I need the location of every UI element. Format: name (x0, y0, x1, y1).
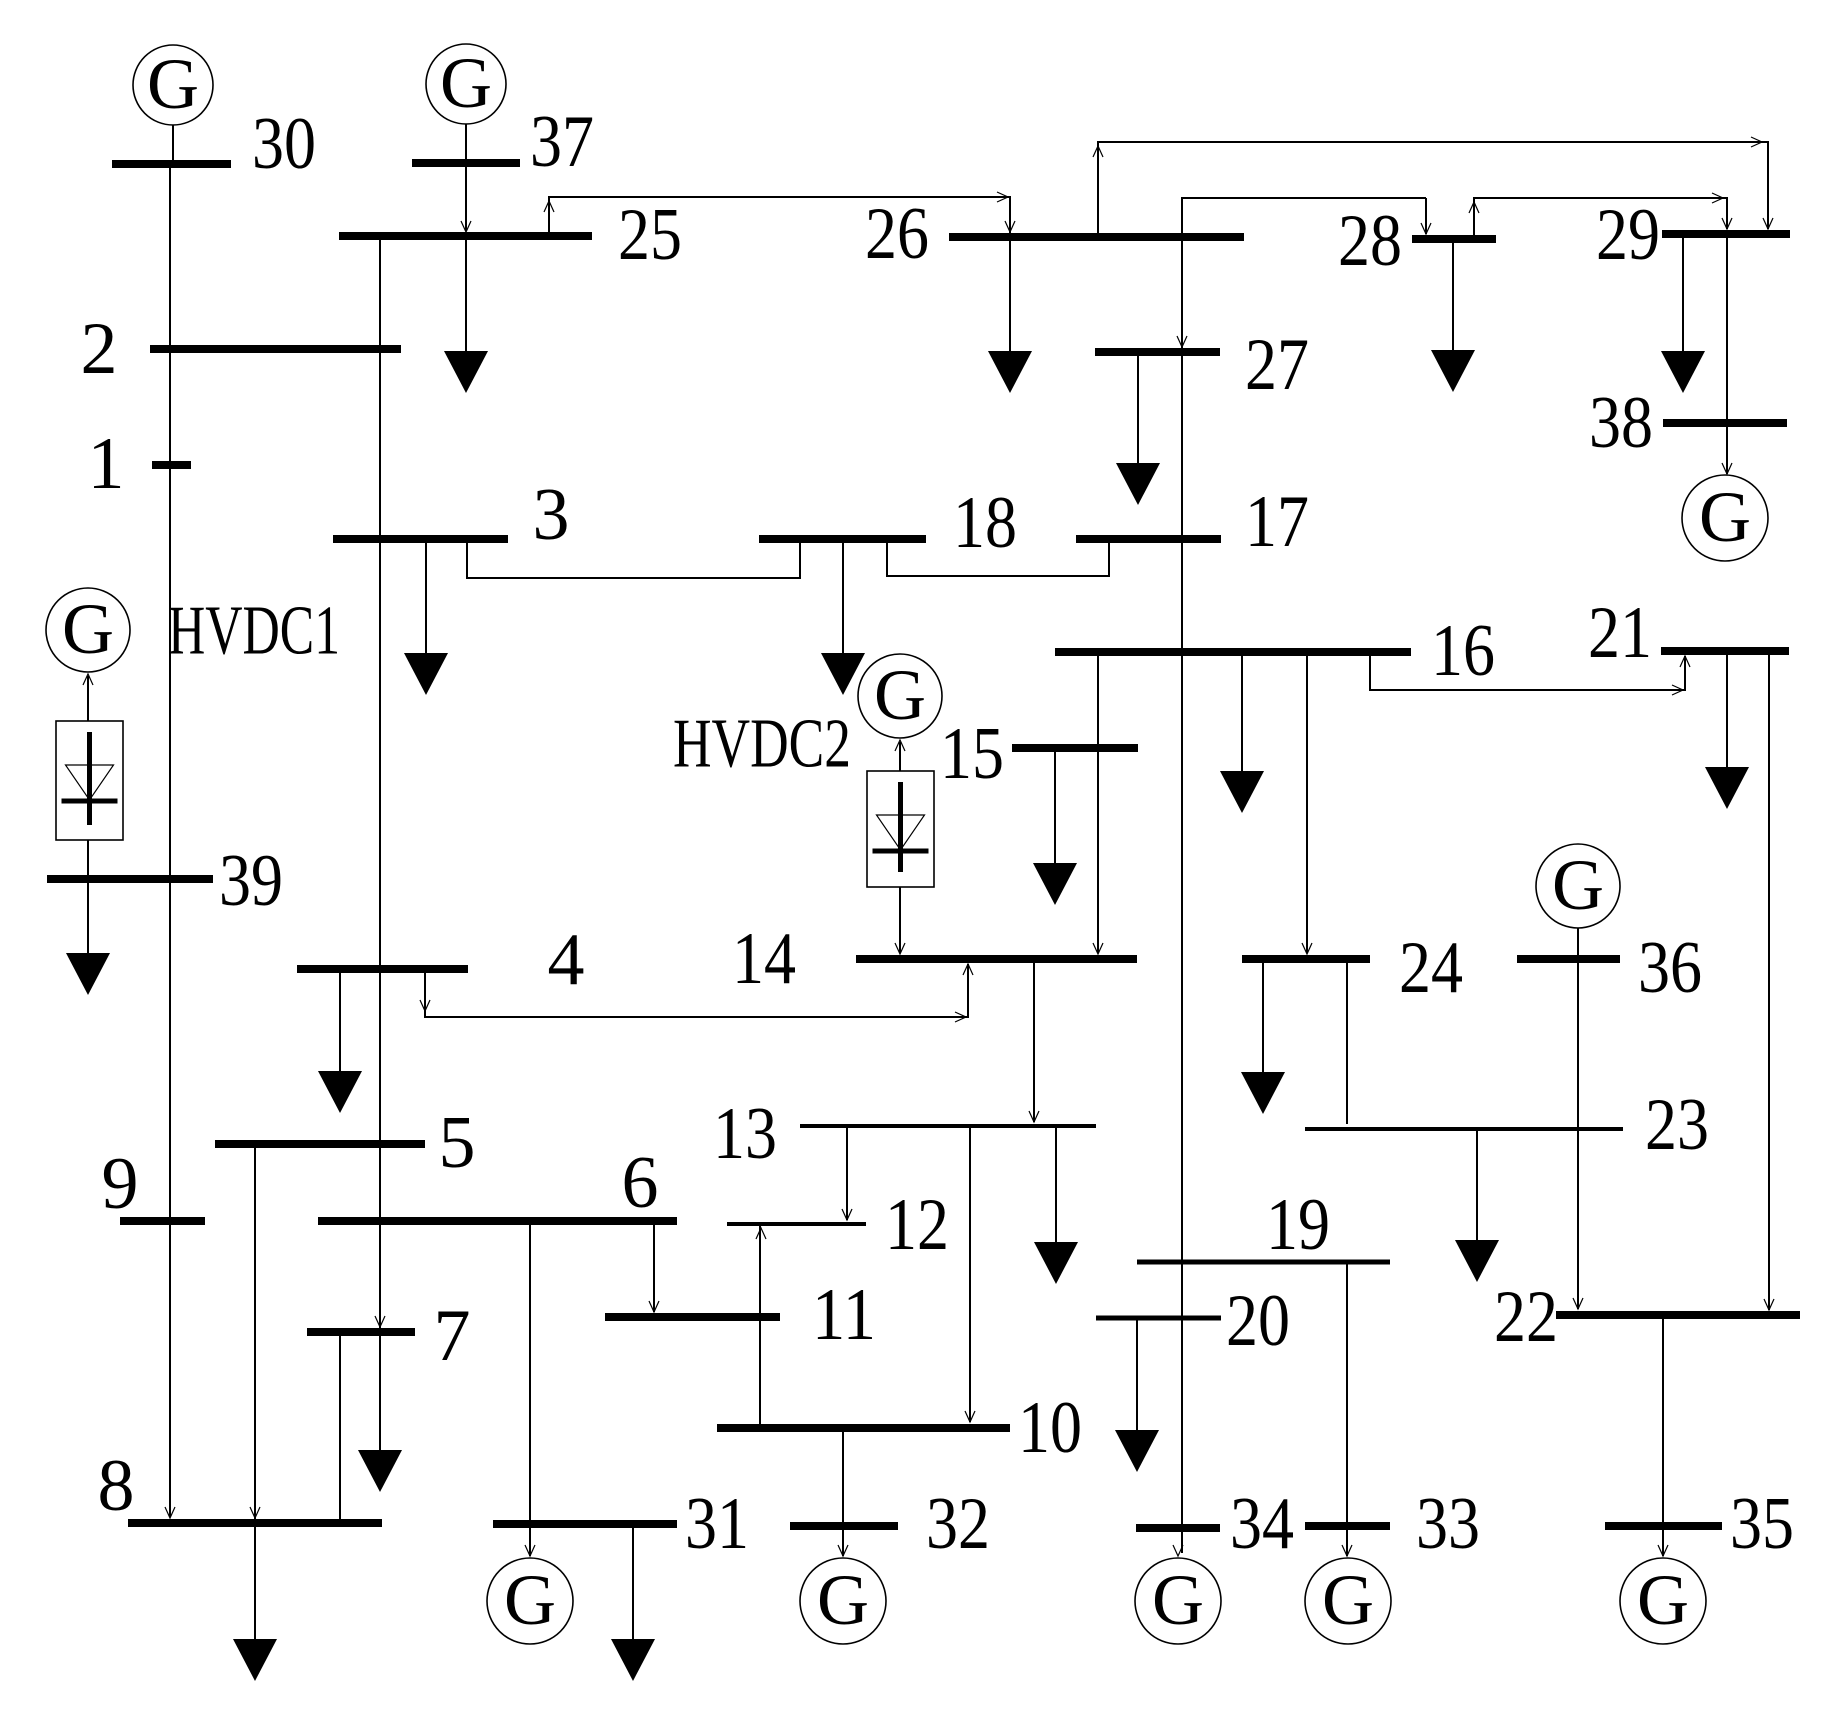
wire bus 39 load lead (87, 879, 89, 953)
svg-text:31: 31 (685, 1483, 749, 1565)
svg-text:G: G (62, 589, 114, 669)
wire 26-28 and long 26-17-20-34 feeder (1182, 198, 1426, 1553)
wire HVDC2 valve to bus 14 (899, 887, 901, 953)
svg-text:23: 23 (1645, 1084, 1709, 1166)
label bus 22 (1494, 1276, 1558, 1358)
svg-text:G: G (1552, 845, 1604, 925)
label HVDC2 (673, 706, 851, 783)
label bus 10 (1018, 1387, 1082, 1469)
wire 30-2-1-39-9-8 chain (169, 164, 171, 1517)
arrowhead 26-29 right (1751, 137, 1762, 147)
svg-text:19: 19 (1266, 1184, 1330, 1266)
wire HVDC2 valve to G14 gen (899, 742, 901, 771)
wire 25 load lead (465, 236, 467, 351)
label bus 20 (1226, 1280, 1290, 1362)
bus 34 (1136, 1524, 1220, 1532)
svg-text:G: G (440, 43, 492, 123)
arrowhead 25-26 corner up (544, 201, 554, 212)
arrowhead into bus 7 at x380 (375, 1316, 385, 1327)
load arrow on bus 25 (from 37) (444, 351, 488, 393)
label bus 35 (1730, 1483, 1794, 1565)
arrowhead into bus 29 at x1768 (1763, 218, 1773, 229)
load arrow on bus 8 (233, 1639, 277, 1681)
wire 13-12 link (846, 1126, 848, 1220)
svg-text:37: 37 (530, 101, 594, 183)
label bus 24 (1399, 927, 1463, 1009)
bus 32 (790, 1522, 898, 1530)
load arrow on bus 28 (1431, 350, 1475, 392)
generator G37 (426, 43, 506, 124)
generator G30 (133, 44, 213, 125)
svg-text:24: 24 (1399, 927, 1463, 1009)
wire 16-24 link (1306, 652, 1308, 953)
svg-text:G: G (147, 44, 199, 124)
wire HVDC1 valve to G39 gen (87, 676, 89, 721)
svg-text:18: 18 (953, 482, 1017, 564)
wire 18-17 link (887, 539, 1109, 576)
svg-text:1: 1 (88, 423, 125, 505)
wire 6-31-G31 lead (529, 1221, 531, 1556)
svg-text:26: 26 (865, 193, 929, 275)
arrowhead into bus 21 (1680, 656, 1690, 667)
label bus 16 (1431, 610, 1495, 692)
wire 21-22 link (1768, 651, 1770, 1310)
label bus 33 (1416, 1483, 1480, 1565)
bus 11 (605, 1313, 780, 1321)
svg-text:21: 21 (1588, 592, 1652, 674)
wire 16-21 link (1370, 652, 1685, 690)
bus 14 (856, 955, 1137, 963)
svg-text:G: G (1322, 1560, 1374, 1640)
label bus 19 (1266, 1184, 1330, 1266)
arrowhead 25-26 right (997, 192, 1008, 202)
wire 3-18 link (467, 539, 800, 578)
arrowhead into bus 14 at x900 (895, 943, 905, 954)
wire bus 13 load lead (1055, 1126, 1057, 1242)
label bus 36 (1638, 927, 1702, 1009)
arrowhead 16-21 right (1672, 685, 1683, 695)
svg-text:17: 17 (1245, 481, 1309, 563)
arrowhead into G33 circle (1342, 1545, 1352, 1556)
arrowhead into G38 circle (1722, 463, 1732, 474)
svg-text:33: 33 (1416, 1483, 1480, 1565)
label bus 6 (622, 1142, 659, 1224)
bus 30 (112, 160, 231, 168)
svg-text:15: 15 (940, 713, 1004, 795)
arrowhead into G31 circle (525, 1545, 535, 1556)
label bus 2 (81, 308, 118, 390)
bus 7 (307, 1328, 415, 1336)
bus 36 (1517, 955, 1620, 963)
generator G14 (HVDC2) (858, 654, 942, 738)
bus 38 (1663, 419, 1787, 427)
svg-text:G: G (1637, 1560, 1689, 1640)
generator G32 (800, 1558, 886, 1644)
arrowhead 26-29 corner up (1093, 146, 1103, 157)
svg-text:32: 32 (926, 1483, 990, 1565)
load arrow on bus 20 (1115, 1430, 1159, 1472)
generator G35 (1620, 1558, 1706, 1644)
svg-text:39: 39 (219, 840, 283, 922)
load arrow on bus 23 (1455, 1240, 1499, 1282)
label bus 29 (1596, 194, 1660, 276)
load arrow on bus 27 (1116, 463, 1160, 505)
arrowhead into bus 24 (1302, 943, 1312, 954)
bus 12 (727, 1222, 866, 1226)
svg-text:9: 9 (102, 1143, 139, 1225)
arrowhead into bus 12 (842, 1209, 852, 1220)
label bus 38 (1589, 382, 1653, 464)
bus 37 (412, 159, 520, 167)
arrowhead into bus 12 from 11 (756, 1228, 766, 1239)
svg-text:HVDC2: HVDC2 (673, 706, 851, 783)
bus 29 (1662, 230, 1790, 238)
arrowhead into bus 25 (461, 221, 471, 232)
arrowhead into bus 13 (1029, 1111, 1039, 1122)
wire bus 3 load lead (425, 539, 427, 653)
wire 5-8 and bus 8 load (254, 1144, 256, 1640)
arrowhead into bus 8 at x255 (250, 1507, 260, 1518)
svg-text:6: 6 (622, 1142, 659, 1224)
wire 28-29 link (1474, 198, 1727, 239)
bus 8 (128, 1519, 382, 1527)
bus 1 (152, 461, 191, 469)
wire G37 lead (465, 124, 467, 163)
bus 28 (1412, 235, 1496, 243)
svg-text:36: 36 (1638, 927, 1702, 1009)
arrowhead into bus 22 at x1578 (1573, 1298, 1583, 1309)
label bus 28 (1338, 200, 1402, 282)
label bus 11 (812, 1274, 876, 1356)
svg-text:30: 30 (252, 103, 316, 185)
label bus 9 (102, 1143, 139, 1225)
wire G30 lead (172, 125, 174, 164)
load arrow on bus 4 (318, 1071, 362, 1113)
svg-text:13: 13 (713, 1093, 777, 1175)
bus 4 (297, 965, 468, 973)
bus 17 (1076, 535, 1221, 543)
bus 21 (1661, 647, 1789, 655)
svg-text:G: G (1699, 477, 1751, 557)
bus 31 (493, 1520, 677, 1528)
wire bus 15 load lead (1054, 748, 1056, 863)
arrowhead into bus 14 at x968 (963, 964, 973, 975)
generator G38 (1682, 475, 1768, 561)
bus 3 (333, 535, 508, 543)
svg-text:12: 12 (885, 1184, 949, 1266)
wire 29-38-G38 lead (1726, 234, 1728, 474)
bus 15 (1012, 744, 1138, 752)
bus 33 (1305, 1522, 1390, 1530)
arrowhead into bus 29 at x1727 (1722, 218, 1732, 229)
bus 5 (215, 1140, 425, 1148)
arrowhead into G14 circle (895, 740, 905, 751)
label bus 1 (88, 423, 125, 505)
load arrow on bus 24 (1241, 1072, 1285, 1114)
label bus 18 (953, 482, 1017, 564)
label bus 23 (1645, 1084, 1709, 1166)
load arrow on bus 31 (611, 1639, 655, 1681)
label bus 21 (1588, 592, 1652, 674)
svg-text:20: 20 (1226, 1280, 1290, 1362)
wire 14-13 link (1033, 959, 1035, 1122)
bus 19 (1137, 1260, 1390, 1265)
svg-text:2: 2 (81, 308, 118, 390)
arrowhead into bus 26 (1005, 221, 1015, 232)
svg-text:G: G (1152, 1560, 1204, 1640)
label bus 5 (439, 1102, 476, 1184)
arrowhead above bus 27 (1177, 336, 1187, 347)
label bus 39 (219, 840, 283, 922)
wire 6-11 link (653, 1221, 655, 1312)
wire G36-36-23-22 lead (1577, 928, 1579, 1309)
label bus 31 (685, 1483, 749, 1565)
label bus 32 (926, 1483, 990, 1565)
svg-text:HVDC1: HVDC1 (168, 593, 340, 670)
bus 16 (1055, 648, 1411, 656)
label bus 4 (548, 919, 585, 1001)
svg-text:7: 7 (434, 1295, 471, 1377)
svg-text:G: G (504, 1560, 556, 1640)
bus 18 (759, 535, 926, 543)
svg-text:38: 38 (1589, 382, 1653, 464)
arrowhead into G39 circle (83, 674, 93, 685)
wire bus 27 load lead (1137, 352, 1139, 463)
svg-text:G: G (874, 655, 926, 735)
svg-text:35: 35 (1730, 1483, 1794, 1565)
label bus 8 (98, 1445, 135, 1527)
bus 35 (1605, 1522, 1722, 1530)
wire 4-14 link (425, 964, 968, 1017)
wire 12-11-10 link (759, 1224, 761, 1429)
svg-text:8: 8 (98, 1445, 135, 1527)
wire 22-35-G35 lead (1662, 1315, 1664, 1556)
label bus 13 (713, 1093, 777, 1175)
wire 25-26 link (549, 197, 1010, 236)
arrowhead into bus 28 (1421, 223, 1431, 234)
label bus 12 (885, 1184, 949, 1266)
wire bus 24 load lead (1262, 959, 1264, 1072)
bus 9 (120, 1217, 205, 1225)
svg-text:27: 27 (1245, 324, 1309, 406)
wire bus 23 load lead (1476, 1129, 1478, 1241)
wire bus 20 load lead (1136, 1318, 1138, 1431)
generator G39 (HVDC1) (46, 588, 130, 672)
bus 27 (1095, 348, 1220, 356)
arrowhead into G32 circle (838, 1545, 848, 1556)
svg-text:34: 34 (1230, 1483, 1294, 1565)
bus 10 (717, 1424, 1010, 1432)
bus 23 (1305, 1127, 1623, 1131)
arrowhead 4-14 right (955, 1012, 966, 1022)
wire bus 18 load lead (842, 539, 844, 653)
svg-text:16: 16 (1431, 610, 1495, 692)
label HVDC1 (168, 593, 340, 670)
wire 10-32-G32 lead (842, 1428, 844, 1556)
arrowhead into bus 22 at x1769 (1764, 1299, 1774, 1310)
wire 37-25 (465, 163, 467, 231)
arrowhead into bus 14 at x1098 (1093, 943, 1103, 954)
wire 26-29 link (1098, 142, 1768, 237)
generator G31 (487, 1558, 573, 1644)
HVDC1 converter valve (56, 721, 123, 840)
wire bus 28 load lead (1452, 239, 1454, 350)
load arrow on bus 7 (358, 1450, 402, 1492)
svg-text:10: 10 (1018, 1387, 1082, 1469)
wire 7-8 link (339, 1332, 341, 1523)
bus 26 (949, 233, 1244, 241)
arrowhead 28-29 right (1712, 193, 1723, 203)
bus 20 (1096, 1316, 1221, 1321)
load arrow on bus 18 (821, 653, 865, 695)
HVDC2 converter valve (867, 771, 934, 887)
bus 22 (1556, 1311, 1800, 1319)
label bus 30 (252, 103, 316, 185)
svg-text:28: 28 (1338, 200, 1402, 282)
arrowhead into G34 circle (1173, 1545, 1183, 1556)
load arrow on bus 16 (1220, 771, 1264, 813)
load arrow on bus 39 (66, 953, 110, 995)
label bus 37 (530, 101, 594, 183)
arrowhead into G35 circle (1658, 1545, 1668, 1556)
wire HVDC1 valve to bus 39 (87, 840, 89, 879)
load arrow on bus 26 (988, 351, 1032, 393)
wire 13-10 link (969, 1126, 971, 1422)
bus 25 (339, 232, 592, 240)
label bus 27 (1245, 324, 1309, 406)
label bus 14 (732, 918, 796, 1000)
arrowhead into bus 10 (965, 1411, 975, 1422)
arrowhead into bus 11 (649, 1301, 659, 1312)
svg-text:11: 11 (812, 1274, 876, 1356)
label bus 3 (533, 474, 570, 556)
arrowhead into bus 8 at x170 (165, 1507, 175, 1518)
wire 28 drop (1425, 198, 1427, 234)
wire 19-33-G33 lead (1346, 1262, 1348, 1556)
arrowhead 4-14 corner down (420, 1000, 430, 1011)
svg-text:14: 14 (732, 918, 796, 1000)
label bus 17 (1245, 481, 1309, 563)
wire bus 29 load lead (1682, 234, 1684, 351)
label bus 7 (434, 1295, 471, 1377)
wire 24-23 link (1346, 959, 1348, 1124)
bus 39 (47, 875, 213, 883)
bus 2 (150, 345, 401, 353)
load arrow on bus 13 (1034, 1242, 1078, 1284)
svg-text:G: G (817, 1560, 869, 1640)
load arrow on bus 29 (1661, 351, 1705, 393)
arrowhead 28-29 corner up (1469, 202, 1479, 213)
load arrow on bus 15 (1033, 863, 1077, 905)
label bus 15 (940, 713, 1004, 795)
svg-text:25: 25 (618, 194, 682, 276)
wire bus 16 load lead (1241, 652, 1243, 771)
svg-text:29: 29 (1596, 194, 1660, 276)
wire 25-2-3-5-7 chain (379, 236, 381, 1450)
svg-text:22: 22 (1494, 1276, 1558, 1358)
wire bus 31 load lead (632, 1525, 634, 1640)
generator G34 (1135, 1558, 1221, 1644)
label bus 26 (865, 193, 929, 275)
generator G36 (1536, 844, 1620, 928)
svg-text:3: 3 (533, 474, 570, 556)
load arrow on bus 21 (1705, 767, 1749, 809)
generator G33 (1305, 1558, 1391, 1644)
bus 24 (1242, 955, 1370, 963)
label bus 25 (618, 194, 682, 276)
load arrow on bus 3 (404, 653, 448, 695)
wire bus 4 load lead (339, 969, 341, 1071)
wire 16-14 link (1097, 652, 1099, 953)
wire bus 26 load lead (1009, 237, 1011, 351)
label bus 34 (1230, 1483, 1294, 1565)
bus 6 (318, 1217, 677, 1225)
svg-text:4: 4 (548, 919, 585, 1001)
svg-text:5: 5 (439, 1102, 476, 1184)
bus 13 (800, 1124, 1096, 1128)
wire bus 21 load lead (1726, 651, 1728, 767)
